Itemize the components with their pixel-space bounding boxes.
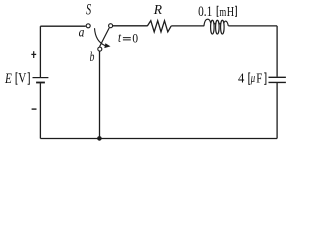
svg-text:R: R <box>153 2 163 17</box>
svg-text:μ: μ <box>250 73 255 86</box>
svg-text:4: 4 <box>238 70 245 86</box>
svg-text:m: m <box>219 5 226 19</box>
svg-text:F: F <box>256 70 262 85</box>
svg-text:t: t <box>118 30 122 45</box>
svg-text:b: b <box>90 48 95 64</box>
svg-text:S: S <box>86 0 91 18</box>
svg-text:0.1: 0.1 <box>198 3 212 20</box>
svg-text:V: V <box>18 69 27 86</box>
svg-text:H: H <box>227 3 235 19</box>
svg-text:0: 0 <box>132 31 138 46</box>
svg-text:E: E <box>4 69 12 86</box>
svg-text:a: a <box>79 25 85 40</box>
